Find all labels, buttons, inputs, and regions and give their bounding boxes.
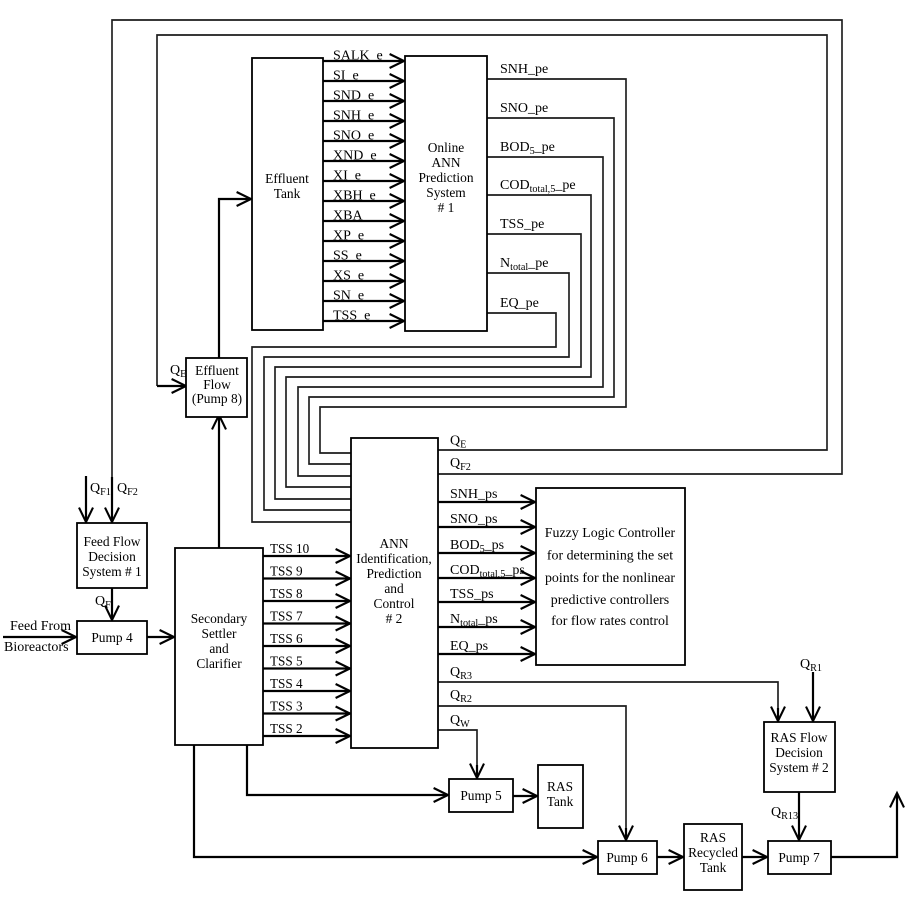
svg-text:Pump 6: Pump 6 bbox=[606, 850, 648, 865]
svg-text:TSS_e: TSS_e bbox=[333, 309, 370, 324]
svg-text:TSS 2: TSS 2 bbox=[270, 721, 303, 736]
svg-text:RAS: RAS bbox=[547, 779, 573, 794]
svg-text:Effluent: Effluent bbox=[195, 363, 239, 378]
svg-text:Tank: Tank bbox=[547, 794, 574, 809]
svg-text:Pump 7: Pump 7 bbox=[778, 850, 820, 865]
svg-text:Decision: Decision bbox=[775, 745, 823, 760]
svg-text:ANN: ANN bbox=[431, 155, 460, 170]
svg-text:TSS_pe: TSS_pe bbox=[500, 217, 544, 232]
svg-text:# 2: # 2 bbox=[386, 611, 403, 626]
svg-text:Clarifier: Clarifier bbox=[196, 656, 242, 671]
svg-text:predictive controllers: predictive controllers bbox=[551, 593, 669, 608]
svg-text:System: System bbox=[426, 185, 466, 200]
svg-text:TSS 7: TSS 7 bbox=[270, 609, 303, 624]
svg-text:System # 2: System # 2 bbox=[769, 760, 829, 775]
svg-text:BOD5_ps: BOD5_ps bbox=[450, 538, 504, 555]
svg-text:TSS_ps: TSS_ps bbox=[450, 587, 494, 602]
svg-text:Control: Control bbox=[374, 596, 415, 611]
svg-text:Tank: Tank bbox=[274, 186, 301, 201]
svg-text:EQ_ps: EQ_ps bbox=[450, 639, 488, 654]
svg-text:for flow rates control: for flow rates control bbox=[551, 614, 669, 629]
svg-text:and: and bbox=[209, 641, 229, 656]
svg-text:Fuzzy Logic Controller: Fuzzy Logic Controller bbox=[545, 526, 676, 541]
svg-text:Tank: Tank bbox=[700, 860, 727, 875]
svg-text:Feed Flow: Feed Flow bbox=[84, 534, 141, 549]
svg-text:SND_e: SND_e bbox=[333, 89, 374, 104]
svg-text:XND_e: XND_e bbox=[333, 149, 377, 164]
svg-text:and: and bbox=[384, 581, 404, 596]
svg-text:Settler: Settler bbox=[202, 626, 237, 641]
svg-text:BOD5_pe: BOD5_pe bbox=[500, 140, 555, 157]
svg-text:for determining the set: for determining the set bbox=[547, 549, 673, 564]
svg-text:Recycled: Recycled bbox=[688, 845, 738, 860]
svg-text:SNO_pe: SNO_pe bbox=[500, 101, 548, 116]
svg-text:TSS 4: TSS 4 bbox=[270, 676, 303, 691]
svg-text:TSS 9: TSS 9 bbox=[270, 564, 303, 579]
svg-text:(Pump 8): (Pump 8) bbox=[192, 391, 242, 406]
svg-text:XP_e: XP_e bbox=[333, 229, 364, 244]
svg-text:SNO_ps: SNO_ps bbox=[450, 512, 497, 527]
svg-text:Identification,: Identification, bbox=[356, 551, 431, 566]
svg-text:Flow: Flow bbox=[203, 377, 231, 392]
svg-text:XS_e: XS_e bbox=[333, 269, 364, 284]
svg-text:TSS 8: TSS 8 bbox=[270, 586, 303, 601]
svg-text:ANN: ANN bbox=[379, 536, 408, 551]
svg-text:System # 1: System # 1 bbox=[82, 564, 142, 579]
svg-text:Prediction: Prediction bbox=[418, 170, 473, 185]
svg-text:Pump 4: Pump 4 bbox=[91, 630, 133, 645]
svg-text:points for the nonlinear: points for the nonlinear bbox=[545, 571, 675, 586]
svg-text:SI_e: SI_e bbox=[333, 69, 359, 84]
svg-text:# 1: # 1 bbox=[438, 200, 455, 215]
svg-text:RAS Flow: RAS Flow bbox=[771, 730, 828, 745]
svg-text:XBA: XBA bbox=[333, 209, 363, 224]
svg-text:SS_e: SS_e bbox=[333, 249, 362, 264]
svg-text:Online: Online bbox=[428, 140, 465, 155]
svg-text:XI_e: XI_e bbox=[333, 169, 361, 184]
svg-text:RAS: RAS bbox=[700, 830, 726, 845]
svg-text:SNO_e: SNO_e bbox=[333, 129, 374, 144]
svg-text:Bioreactors: Bioreactors bbox=[4, 640, 69, 655]
svg-text:XBH_e: XBH_e bbox=[333, 189, 376, 204]
svg-text:TSS 5: TSS 5 bbox=[270, 654, 303, 669]
svg-text:EQ_pe: EQ_pe bbox=[500, 296, 539, 311]
svg-text:Secondary: Secondary bbox=[191, 611, 248, 626]
svg-text:SNH_ps: SNH_ps bbox=[450, 487, 497, 502]
svg-text:TSS 6: TSS 6 bbox=[270, 631, 303, 646]
svg-text:Feed From: Feed From bbox=[10, 619, 71, 634]
svg-text:TSS 3: TSS 3 bbox=[270, 699, 303, 714]
svg-text:TSS 10: TSS 10 bbox=[270, 541, 310, 556]
svg-text:SALK_e: SALK_e bbox=[333, 49, 383, 64]
svg-text:Decision: Decision bbox=[88, 549, 136, 564]
svg-text:Effluent: Effluent bbox=[265, 171, 309, 186]
svg-text:Pump 5: Pump 5 bbox=[460, 788, 502, 803]
svg-text:SNH_e: SNH_e bbox=[333, 109, 374, 124]
svg-text:Prediction: Prediction bbox=[366, 566, 421, 581]
svg-text:SNH_pe: SNH_pe bbox=[500, 62, 548, 77]
svg-text:SN_e: SN_e bbox=[333, 289, 364, 304]
